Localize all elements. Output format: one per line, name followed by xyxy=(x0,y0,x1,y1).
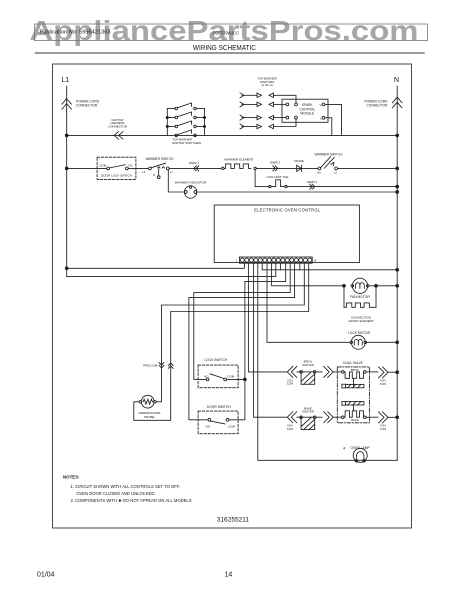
svg-text:BAKE: BAKE xyxy=(351,418,359,422)
svg-text:IGNITER: IGNITER xyxy=(302,410,314,414)
wire pin15 to probe return xyxy=(134,263,309,420)
header box xyxy=(35,24,428,41)
fan motor M1 xyxy=(351,278,369,293)
wire L1 feed line B to pin8 xyxy=(67,263,276,276)
lock motor M2 xyxy=(350,335,367,349)
junction fan right xyxy=(375,284,378,287)
low limit thermostat line xyxy=(255,186,269,188)
junction L1 line A xyxy=(65,267,68,270)
svg-text:CONNECTOR: CONNECTOR xyxy=(366,104,388,108)
warmer indicator lamp xyxy=(184,186,196,198)
connector WWR 3 xyxy=(310,184,315,189)
svg-text:H2: H2 xyxy=(317,170,321,174)
svg-text:CON: CON xyxy=(287,382,293,386)
wire lock motor to N xyxy=(367,341,398,343)
dual valve (dash-dot box) xyxy=(343,361,364,365)
svg-text:L2: L2 xyxy=(334,170,338,174)
wire xyxy=(256,167,318,169)
junction N broil xyxy=(396,371,399,374)
svg-text:FAN MOTOR: FAN MOTOR xyxy=(350,295,370,299)
bake valve coil xyxy=(342,402,367,419)
svg-text:CON: CON xyxy=(380,382,386,386)
svg-text:N: N xyxy=(394,77,399,84)
svg-text:ELECTRONIC OVEN CONTROL: ELECTRONIC OVEN CONTROL xyxy=(254,208,321,213)
wire pin4 drop to oven lamp xyxy=(258,263,397,460)
svg-text:WWR 1: WWR 1 xyxy=(189,161,200,165)
wire L1 vertical rail xyxy=(66,86,68,276)
junction L1 main line xyxy=(65,134,68,137)
connector bake valve to N xyxy=(379,412,389,423)
top burner ignitor row 1 xyxy=(240,93,296,103)
svg-text:WWR 3: WWR 3 xyxy=(307,180,318,184)
wire L1 feed line A to pin1 xyxy=(67,263,245,268)
wire to N xyxy=(338,167,398,169)
svg-text:IGNITER: IGNITER xyxy=(302,363,314,367)
svg-text:MODULE: MODULE xyxy=(300,112,314,116)
wire N feed to pin5 xyxy=(262,263,397,270)
oven lamp label with asterisk xyxy=(343,446,371,454)
svg-text:OVEN LAMP: OVEN LAMP xyxy=(351,446,371,450)
wire pin10 to lock/door COM rail xyxy=(229,263,286,420)
svg-text:DUAL VALVE: DUAL VALVE xyxy=(343,361,364,365)
spark control module U1 xyxy=(282,99,328,122)
junction N warmer line xyxy=(396,167,399,170)
svg-text:OVEN DOOR CLOSED AND UNLOCKED.: OVEN DOOR CLOSED AND UNLOCKED. xyxy=(76,491,155,496)
wire indicator to N xyxy=(197,191,397,193)
svg-text:LOW LIMIT THE.: LOW LIMIT THE. xyxy=(266,175,289,179)
broil valve coil xyxy=(342,371,367,388)
junction fan left xyxy=(343,284,346,287)
svg-text:WWR 2: WWR 2 xyxy=(270,160,281,164)
top burner ignitor row 3 xyxy=(240,115,286,120)
svg-text:H: H xyxy=(170,170,172,174)
connector PRB COM (down chevrons) xyxy=(159,363,164,368)
connector broil igniter input xyxy=(287,366,297,377)
pin 1 label xyxy=(236,259,238,263)
wire pin13 stub xyxy=(299,263,301,270)
wire element junction drop xyxy=(254,170,256,187)
top burner ignitor row 4 xyxy=(240,119,296,129)
svg-text:WARMER SWITCH: WARMER SWITCH xyxy=(315,153,344,157)
wire pin14 to probe xyxy=(156,263,304,402)
connector bake valve input xyxy=(324,412,334,423)
svg-text:CON: CON xyxy=(287,427,293,431)
svg-text:V: V xyxy=(319,103,321,107)
connector bake igniter input xyxy=(287,412,297,423)
power cord connector (L1) xyxy=(62,99,72,110)
junction L1 warmer line xyxy=(65,167,68,170)
lock switch S3 xyxy=(204,358,228,362)
svg-text:P: P xyxy=(153,173,155,177)
svg-text:NOTES:: NOTES: xyxy=(63,475,80,480)
door lock switch (dashed box) xyxy=(97,157,136,179)
node L1 label xyxy=(62,77,70,84)
svg-text:LOCK MOTOR: LOCK MOTOR xyxy=(348,331,371,335)
svg-text:PRB COM: PRB COM xyxy=(143,363,158,367)
svg-text:WARMER ELEMENT: WARMER ELEMENT xyxy=(224,157,254,161)
junction N main line xyxy=(396,134,399,137)
svg-text:NO: NO xyxy=(206,425,211,429)
svg-text:L1: L1 xyxy=(142,170,146,174)
top burner ignitor row 2 xyxy=(240,102,286,107)
connector broil valve to N xyxy=(379,367,389,378)
svg-text:2. COMPONENTS WITH ✱ DO NOT A: 2. COMPONENTS WITH ✱ DO NOT APPEAR ON AL… xyxy=(71,498,193,503)
svg-text:CONNECTOR: CONNECTOR xyxy=(76,104,98,108)
junction N lock motor xyxy=(396,341,399,344)
junction N feed xyxy=(396,268,399,271)
wire pin2 drop to broil igniter xyxy=(248,263,287,372)
junction N fan line xyxy=(396,284,399,287)
junction N low limit xyxy=(396,185,399,188)
wire main top line L1 to N xyxy=(67,134,398,136)
pin 16 label xyxy=(313,259,316,263)
svg-text:COM: COM xyxy=(228,425,236,429)
top burner ignitor switches bank xyxy=(166,103,205,137)
wire warmer indicator branch xyxy=(168,170,184,192)
svg-text:BROIL: BROIL xyxy=(351,368,360,372)
wire pin6 drop to lock motor xyxy=(267,263,350,342)
svg-text:PROBE: PROBE xyxy=(144,415,155,419)
svg-text:L1: L1 xyxy=(62,77,70,84)
svg-text:CONNECTOR: CONNECTOR xyxy=(108,124,127,128)
temperature probe RT1 xyxy=(139,395,156,408)
svg-text:FGF379WJCC: FGF379WJCC xyxy=(213,31,239,37)
svg-text:COM: COM xyxy=(227,374,235,378)
node N label xyxy=(394,77,399,84)
junction N indicator xyxy=(396,191,399,194)
junction lock COM rail xyxy=(244,378,247,381)
diode D1 xyxy=(297,165,302,171)
junction N bake xyxy=(396,416,399,419)
wire warmer line left xyxy=(67,167,107,169)
svg-text:ASSIST ELEMENT: ASSIST ELEMENT xyxy=(348,319,374,323)
door switch S4 xyxy=(207,405,231,409)
wire pin12 to door switch xyxy=(189,263,295,420)
svg-text:WARMER SWITCH: WARMER SWITCH xyxy=(146,157,175,161)
svg-text:1. CIRCUIT SHOWN WITH ALL CON: 1. CIRCUIT SHOWN WITH ALL CONTROLS SET T… xyxy=(71,484,181,489)
wire N vertical rail xyxy=(396,86,398,460)
svg-text:01/04: 01/04 xyxy=(37,572,55,579)
svg-text:DOOR LOCK SWITCH: DOOR LOCK SWITCH xyxy=(101,173,132,177)
convection assist element parallel loop xyxy=(344,286,376,308)
svg-text:WARMER INDICATOR: WARMER INDICATOR xyxy=(175,180,207,184)
wire pin9 stub xyxy=(279,263,281,270)
warmer thermostat switch S2 xyxy=(318,157,338,170)
svg-text:LOCK SWITCH: LOCK SWITCH xyxy=(204,358,228,362)
bake igniter xyxy=(302,406,314,413)
EOC connector strip P1 xyxy=(239,257,312,263)
svg-text:Publication No: 5995421363: Publication No: 5995421363 xyxy=(40,29,111,35)
svg-text:(2 OF 4): (2 OF 4) xyxy=(261,83,272,87)
wire xyxy=(128,167,148,169)
module terminals xyxy=(286,103,289,106)
connector probe return (up chevrons) xyxy=(168,363,173,368)
harness connector on main line xyxy=(114,132,123,140)
wire pin7 drop to fan motor xyxy=(272,263,344,286)
wire xyxy=(169,167,221,169)
connector broil valve input xyxy=(324,366,334,377)
wire pin11 to lock switch xyxy=(194,263,290,379)
wire module V terminal to main line xyxy=(325,104,342,135)
svg-text:DOOR SWITCH: DOOR SWITCH xyxy=(207,405,231,409)
electronic oven control U2 xyxy=(214,205,359,263)
wire fan to N xyxy=(369,285,397,287)
wire module L terminal to main line xyxy=(325,118,332,136)
svg-text:WIRING SCHEMATIC: WIRING SCHEMATIC xyxy=(193,45,256,52)
oven lamp DS1 xyxy=(353,448,367,462)
svg-text:CON: CON xyxy=(380,427,386,431)
svg-text:IGNITOR SWITCHES: IGNITOR SWITCHES xyxy=(172,141,201,145)
warmer switch S1 xyxy=(149,163,170,178)
svg-text:COM: COM xyxy=(99,163,107,167)
svg-text:NO: NO xyxy=(204,374,209,378)
svg-text:DIODE: DIODE xyxy=(294,159,304,163)
wire pin3 drop to bake igniter xyxy=(254,263,287,417)
top burner ignitors label xyxy=(257,76,277,87)
broil igniter xyxy=(302,360,314,367)
power cord connector (N) xyxy=(392,97,402,108)
header rule xyxy=(35,52,425,54)
connector WWR 1 xyxy=(194,166,199,171)
svg-text:14: 14 xyxy=(225,572,233,579)
warmer element xyxy=(222,167,224,169)
schematic border frame xyxy=(53,64,412,528)
connector WWR 2 xyxy=(273,166,278,171)
svg-text:316255211: 316255211 xyxy=(217,518,250,524)
